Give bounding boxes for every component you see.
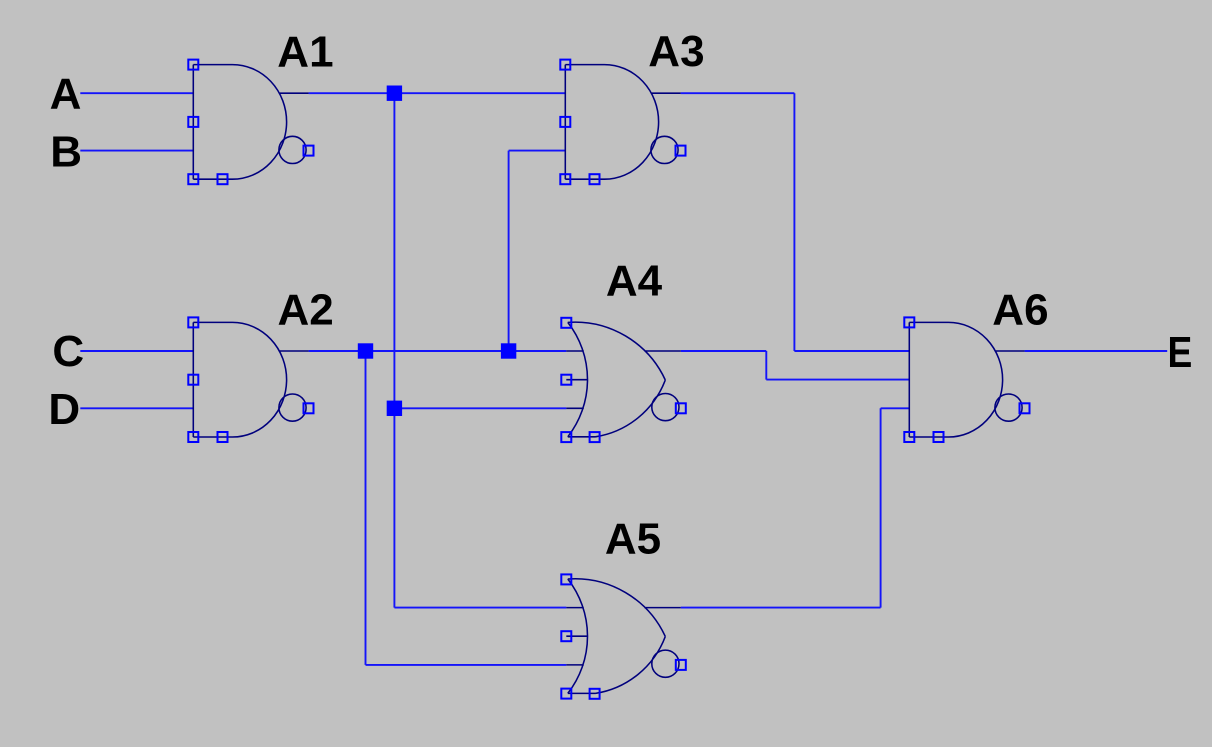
svg-text:D: D [48, 385, 80, 434]
selection handles of A6 [904, 317, 1029, 442]
wire node A2out vertical up to A3 [508, 151, 510, 351]
wire A3 output vertical [793, 93, 795, 351]
svg-text:C: C [52, 327, 84, 376]
inversion bubble of A5 [652, 650, 679, 677]
inversion bubble of A2 [279, 394, 306, 421]
selection handles of A2 [188, 317, 313, 442]
NAND gate A3 body [565, 65, 680, 180]
selection handles of A1 [188, 60, 313, 185]
svg-text:A5: A5 [605, 514, 661, 563]
wire A3 output to A6 input 1 [794, 350, 909, 352]
wire to A5 input 1 [394, 607, 566, 609]
wire to A3 input 2 [509, 150, 566, 152]
wire A6 output to E [1025, 350, 1168, 352]
junction node J3 on A2 output [501, 343, 516, 358]
svg-text:A2: A2 [278, 285, 334, 334]
NAND gate A1 body [193, 65, 308, 180]
NAND gate A6 body [909, 322, 1024, 437]
wire A5 output to A6 input 2 [881, 407, 910, 409]
selection handles of A5 [561, 574, 686, 698]
wire input D [80, 407, 193, 409]
wire node A2out vertical down [365, 351, 367, 665]
wire A4 output horizontal [681, 350, 767, 352]
wire A3 output horizontal [681, 92, 795, 94]
wire A4 output vertical jog [765, 351, 767, 380]
selection handles of A4 [561, 318, 686, 442]
wire A2 output to A4 input 1 [309, 350, 567, 352]
NOR gate A4 body [566, 322, 681, 437]
svg-text:A: A [50, 70, 82, 119]
NAND gate A2 body [193, 322, 308, 437]
svg-text:A3: A3 [648, 27, 704, 76]
selection handles of A3 [560, 60, 685, 185]
wire input A [80, 92, 193, 94]
wire A4 output to A6 middle input [766, 379, 909, 381]
inversion bubble of A1 [279, 136, 306, 163]
wire A5 output horizontal [681, 607, 881, 609]
wire A5 output vertical up [880, 408, 882, 607]
NOR gate A5 body [566, 579, 681, 694]
junction node J1 on A1 output [387, 86, 402, 101]
junction node J2 on A2 output [358, 343, 373, 358]
junction node J4 on A1out vertical [387, 401, 402, 416]
wire junction to A4 input 2 [394, 407, 566, 409]
inversion bubble of A6 [995, 394, 1022, 421]
inversion bubble of A3 [651, 136, 678, 163]
wire input C [80, 350, 193, 352]
svg-text:A6: A6 [992, 286, 1048, 335]
wire A1 output to A3 input 1 [309, 92, 566, 94]
wire to A5 input 2 [366, 664, 567, 666]
inversion bubble of A4 [652, 394, 679, 421]
svg-text:E: E [1168, 328, 1193, 377]
svg-text:B: B [50, 128, 82, 177]
wire node A1out vertical down [393, 93, 395, 607]
svg-text:A4: A4 [606, 256, 663, 305]
wire input B [80, 150, 193, 152]
svg-text:A1: A1 [277, 27, 333, 76]
